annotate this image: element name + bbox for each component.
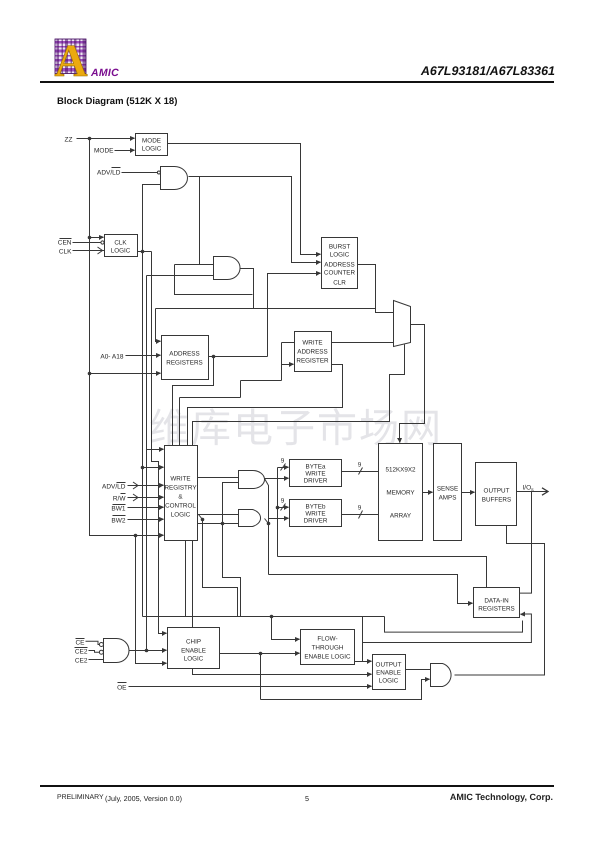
svg-text:CONTROL: CONTROL [165,503,196,510]
AND gate AND6 (output enable) [431,664,452,687]
wire CLK input [73,247,105,254]
node CLK label [59,249,72,256]
svg-text:REGISTERS: REGISTERS [166,360,202,367]
wire mux bottom pin to write registry top [193,345,405,446]
svg-text:ADDRESS: ADDRESS [324,262,354,269]
svg-text:BUFFERS: BUFFERS [482,497,511,504]
svg-text:CHIP: CHIP [186,639,201,646]
mux [394,301,411,347]
box MODE LOGIC [136,134,168,156]
svg-text:ADDRESS: ADDRESS [297,349,327,356]
section heading [57,96,177,107]
svg-text:OUTPUT: OUTPUT [376,662,402,669]
wire CE to gate bubble [86,641,100,644]
svg-text:AMPS: AMPS [439,495,457,502]
svg-text:A0- A18: A0- A18 [100,354,124,361]
wire MODE input [115,150,135,152]
AND gate AND3 (byte a write) [239,471,265,489]
svg-text:LOGIC: LOGIC [171,512,191,519]
svg-text:ADV/LD: ADV/LD [102,484,126,491]
svg-text:ADDRESS: ADDRESS [169,351,199,358]
wire clock rail to flow-through logic [143,615,523,662]
svg-text:ADV/LD: ADV/LD [97,170,121,177]
svg-text:CLK: CLK [114,240,127,247]
box BURST LOGIC ADDRESS COUNTER CLR [322,238,358,289]
svg-text:BURST: BURST [329,244,350,251]
box CLK LOGIC [105,235,138,257]
wire I/O output [517,488,549,593]
wire write-address net to mux input 2 and write addr register [180,343,394,446]
AND gate AND2 (burst load) [214,257,241,280]
header rule [40,81,554,83]
wire write address register output loop [188,365,343,446]
wire output enable logic to AND6 [406,669,431,671]
svg-text:REGISTRY: REGISTRY [164,485,197,492]
wire mux output to memory top [400,325,425,443]
wire CE gate output to chip enable logic [129,650,167,652]
op-amp U? AND gate AND1 (ADV/LD) [157,167,187,190]
wire CE2 to gate input [89,659,104,661]
wire write registry byte line to AND3/AND4 [198,483,241,617]
wire third input to address registers [88,372,161,376]
svg-text:9: 9 [281,498,285,505]
bus slash 9 (byte b to memory) [358,505,363,519]
wire BW1 to write registry [128,507,164,509]
node A0-A18 label [100,354,124,361]
node BW1 label [111,505,125,513]
svg-text:OUTPUT: OUTPUT [484,488,510,495]
box SENSE AMPS [434,444,462,541]
wire CLK LOGIC output rail [138,185,167,634]
svg-text:BYTEb: BYTEb [306,504,326,511]
box OUTPUT ENABLE LOGIC [373,655,406,690]
bus slash 9 (write driver b input) [281,498,286,511]
box BYTEb WRITE DRIVER [290,500,342,527]
wire address registers output net [173,274,321,446]
node ADV/LD label (top) [97,168,121,177]
wire AND2 output to address registers and mux [156,269,376,342]
wire write registry to AND3 input 1 [198,477,239,479]
wire flow-through output to output enable logic [355,661,372,663]
svg-text:DRIVER: DRIVER [304,518,328,525]
svg-text:ZZ: ZZ [65,137,73,144]
wire ZZ rail down to chip enable logic [136,536,167,664]
wire burst output to mux input 1 [358,265,394,313]
svg-text:OE: OE [117,685,127,692]
svg-text:MEMORY: MEMORY [386,490,415,497]
svg-text:LOGIC: LOGIC [379,678,399,685]
svg-text:FLOW-: FLOW- [317,636,337,643]
svg-text:BW2: BW2 [111,518,125,525]
footer rule [40,785,554,787]
wire write registry bottom to output enable logic [193,541,372,675]
node ADV/LD label (write) [102,483,126,491]
node CE2 label [75,658,88,665]
node I/Os label [523,485,535,493]
wire ADV/LD to write registry [128,482,164,489]
svg-text:WRITE: WRITE [305,511,325,518]
node CE2 label (inverted) [75,648,88,656]
node CEN label [58,239,72,247]
bus slash 9 (write driver a input) [281,458,286,471]
wire AND3 output to BYTEa driver [265,478,289,480]
wire chip-enable rail x146 [145,276,214,653]
wire sense amps to output buffers [462,492,475,494]
AND gate AND4 (byte b write) [239,510,261,527]
wire R/W to write registry [128,494,164,501]
svg-text:SENSE: SENSE [437,486,458,493]
wire AND1 output branch to AND2 [175,177,253,295]
box DATA-IN REGISTERS [474,588,520,618]
node CE label [75,639,85,647]
wire bottom enable line to AND6 [261,680,430,700]
wire write registry bottom rail to flow-through clock line [185,541,187,617]
svg-text:WRITE: WRITE [170,476,190,483]
svg-text:ENABLE: ENABLE [376,670,401,677]
wire AND1 output to burst box [189,177,321,263]
wire memory to sense amps [423,492,433,494]
svg-text:CE: CE [75,640,85,647]
svg-text:9: 9 [358,462,362,469]
svg-text:BYTEa: BYTEa [306,464,326,471]
wire MODE LOGIC output to burst box [168,144,321,255]
bus slash 9 (byte a to memory) [358,462,363,475]
wire ZZ input [77,137,164,538]
logo plaid square [54,36,94,82]
svg-text:MODE: MODE [94,148,114,155]
wire A0-A18 input [126,355,161,357]
svg-text:CE2: CE2 [75,649,88,656]
svg-text:CLR: CLR [333,280,346,287]
box OUTPUT BUFFERS [476,463,517,526]
node BW2 label [111,516,125,525]
svg-text:9: 9 [358,505,362,512]
box CHIP ENABLE LOGIC [168,628,220,669]
wire 9-bit data bus rail to byte drivers [276,468,487,588]
wire write registry tap to flow-through area [199,515,238,617]
box WRITE REGISTRY & CONTROL LOGIC [164,446,197,541]
svg-text:CLK: CLK [59,249,72,256]
wire CE2 to gate bubble [89,651,100,653]
svg-text:LOGIC: LOGIC [142,146,162,153]
wire chip enable logic output [220,652,300,700]
svg-text:ENABLE: ENABLE [181,648,206,655]
wire BYTEb driver to memory [342,514,379,516]
svg-text:LOGIC: LOGIC [184,656,204,663]
wire ADV/LD input to AND1 [122,172,158,174]
box 512KX9X2 MEMORY ARRAY [379,444,423,541]
svg-text:CE2: CE2 [75,658,88,665]
node ZZ label [65,137,73,144]
node R/W label [113,494,127,503]
svg-text:ARRAY: ARRAY [390,513,412,520]
svg-text:ENABLE LOGIC: ENABLE LOGIC [304,654,351,661]
svg-text:WRITE: WRITE [305,471,325,478]
wire data-in write-back line to data-in registers [363,614,532,643]
box FLOW-THROUGH ENABLE LOGIC [301,630,355,665]
svg-text:REGISTERS: REGISTERS [478,606,514,613]
wire OE input line [129,686,372,688]
AND gate AND5 (chip enable) with bubbles [99,639,129,663]
node MODE label [94,148,114,155]
svg-text:REGISTER: REGISTER [296,358,329,365]
wire write registry to AND4 input 1 [198,514,239,516]
svg-text:WRITE: WRITE [302,340,322,347]
datasheet title [421,64,555,78]
AMIC wordmark [91,67,119,79]
svg-text:9: 9 [281,458,285,465]
svg-text:THROUGH: THROUGH [312,645,344,652]
box BYTEa WRITE DRIVER [290,460,342,487]
wire BYTEa driver to memory [342,471,379,473]
svg-text:DRIVER: DRIVER [304,478,328,485]
svg-text:LOGIC: LOGIC [330,252,350,259]
wire AND3/AND4 outputs down to data-in registers [265,479,473,604]
watermark [149,396,443,454]
svg-text:512KX9X2: 512KX9X2 [385,467,416,474]
node OE label [117,683,127,692]
svg-text:R/W: R/W [113,496,127,503]
svg-text:MODE: MODE [142,138,161,145]
box ADDRESS REGISTERS [162,336,209,380]
wire CEN input [73,241,105,244]
svg-text:COUNTER: COUNTER [324,270,356,277]
svg-text:BW1: BW1 [111,506,125,513]
svg-text:CEN: CEN [58,240,72,247]
box WRITE ADDRESS REGISTER [295,332,332,372]
svg-text:DATA-IN: DATA-IN [484,598,509,605]
svg-text:LOGIC: LOGIC [111,248,131,255]
wire output buffers feedback loop [455,526,545,676]
wire BW2 to write registry [128,519,164,521]
